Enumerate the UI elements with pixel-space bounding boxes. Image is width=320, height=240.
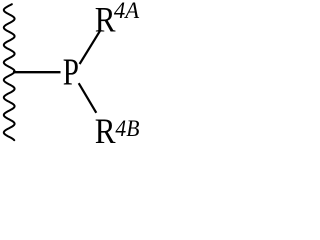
svg-text:R: R: [95, 0, 116, 39]
svg-text:4A: 4A: [114, 0, 139, 23]
wire: bond P to R4B: [79, 83, 97, 113]
wire: horizontal bond from squiggle to P: [13, 71, 61, 73]
svg-text:4B: 4B: [115, 116, 139, 141]
wavy bond (attachment squiggle): [4, 4, 15, 140]
wire: bond P to R4A: [80, 31, 101, 64]
svg-text:R: R: [95, 111, 116, 143]
svg-text:P: P: [63, 51, 79, 93]
